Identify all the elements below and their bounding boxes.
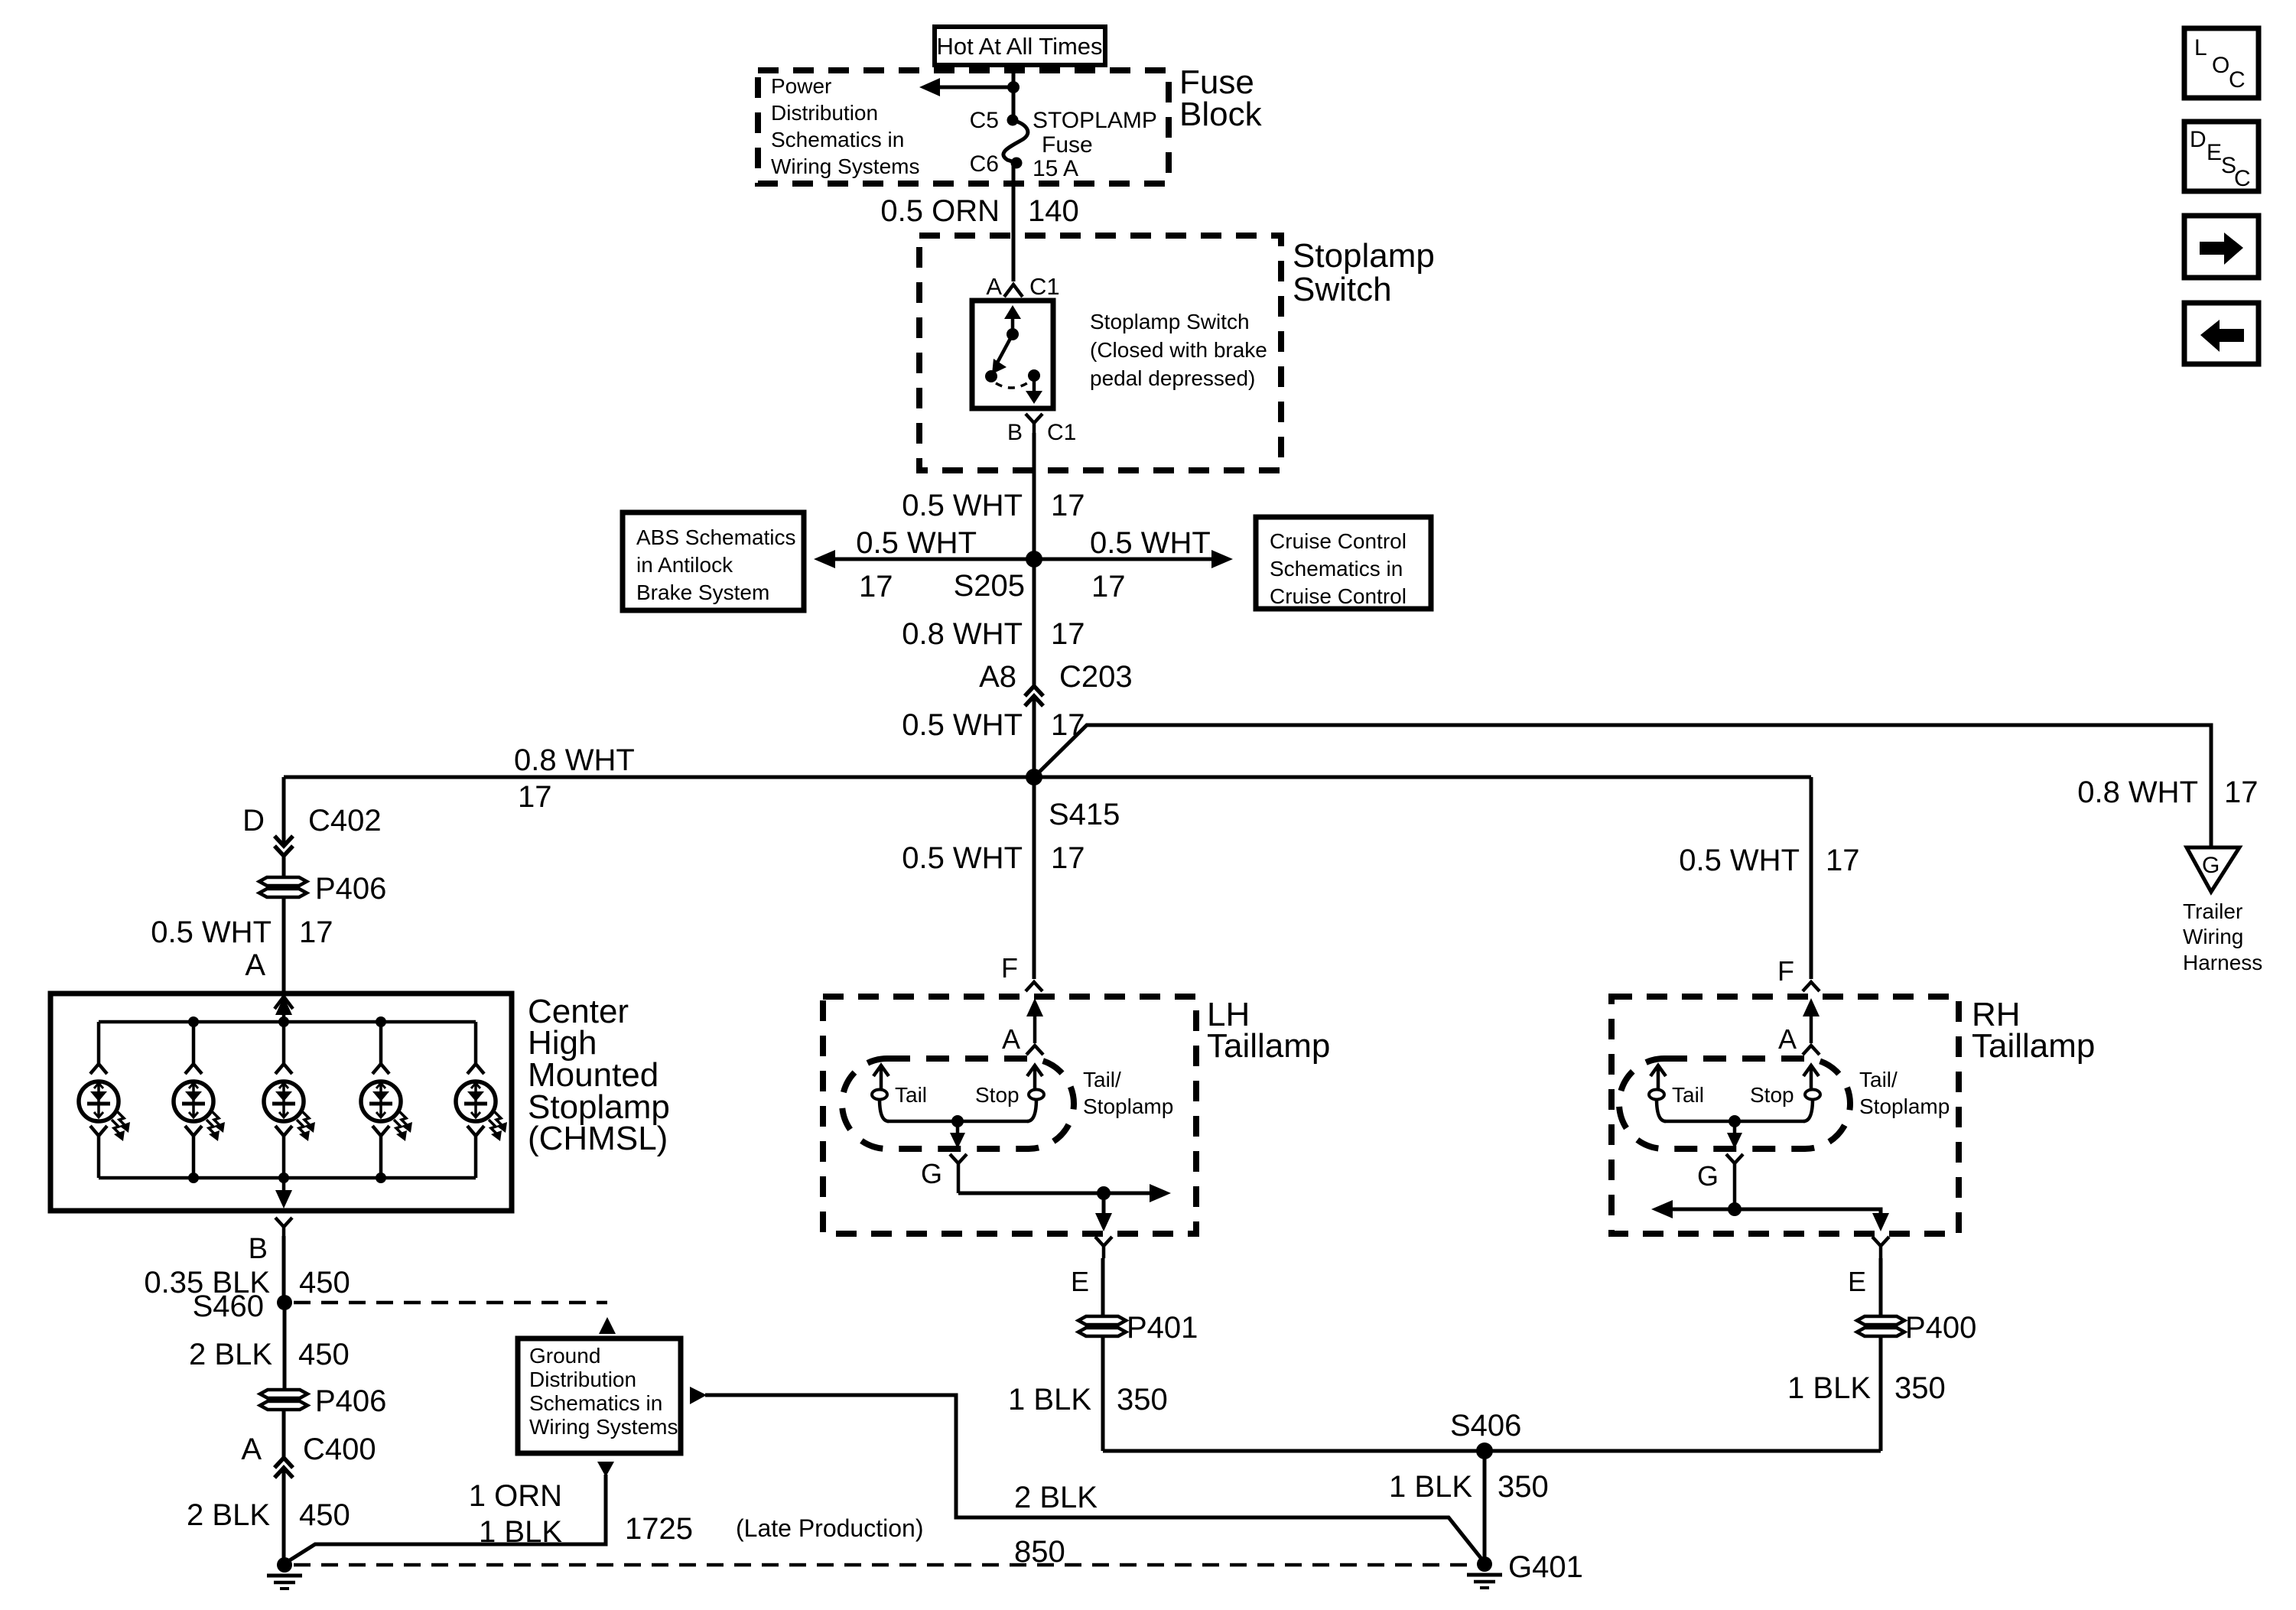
svg-text:0.5 WHT: 0.5 WHT bbox=[902, 708, 1023, 742]
svg-text:in Antilock: in Antilock bbox=[636, 553, 733, 577]
bulb output arrow bbox=[1727, 1121, 1742, 1149]
svg-text:1 BLK: 1 BLK bbox=[1389, 1470, 1472, 1504]
svg-text:17: 17 bbox=[1051, 617, 1085, 651]
label 0.8 WHT / 17 (left corner) bbox=[514, 743, 635, 814]
svg-text:Stoplamp: Stoplamp bbox=[1859, 1094, 1950, 1118]
svg-text:P401: P401 bbox=[1127, 1311, 1198, 1345]
LH Tail/Stoplamp bulb bbox=[842, 1059, 1074, 1149]
svg-text:Taillamp: Taillamp bbox=[1972, 1027, 2095, 1065]
wire E to P401 bbox=[1101, 1258, 1105, 1316]
svg-text:0.8 WHT: 0.8 WHT bbox=[2077, 776, 2198, 809]
bulb filament Stop bbox=[1803, 1065, 1820, 1121]
svg-text:E: E bbox=[1071, 1266, 1089, 1297]
svg-text:2 BLK: 2 BLK bbox=[1014, 1481, 1098, 1514]
wire 2 BLK 450 (S460 to P406) bbox=[189, 1303, 350, 1390]
CHMSL exit arrow bbox=[275, 1178, 292, 1208]
svg-text:0.8 WHT: 0.8 WHT bbox=[514, 743, 635, 777]
svg-text:F: F bbox=[1001, 952, 1018, 984]
svg-text:0.5 WHT: 0.5 WHT bbox=[1679, 844, 1800, 877]
wire E to P400 bbox=[1879, 1258, 1883, 1316]
connector C400 pin A bbox=[241, 1410, 376, 1478]
ground G401 bbox=[1467, 1550, 1583, 1588]
stoplamp switch dashed box bbox=[919, 236, 1281, 470]
RH ground wire with arrow bbox=[1651, 1200, 1889, 1231]
svg-text:G401: G401 bbox=[1508, 1550, 1583, 1584]
CHMSL top bus bbox=[99, 1020, 476, 1024]
svg-text:P400: P400 bbox=[1905, 1311, 1976, 1345]
svg-text:(Closed with brake: (Closed with brake bbox=[1090, 338, 1267, 362]
wire 0.8 WHT 17 (S205 to C203) bbox=[902, 559, 1085, 686]
svg-text:140: 140 bbox=[1028, 194, 1079, 228]
svg-text:1 BLK: 1 BLK bbox=[1008, 1383, 1091, 1416]
svg-text:Wiring Systems: Wiring Systems bbox=[529, 1415, 678, 1439]
RH taillamp dashed box bbox=[1611, 997, 1959, 1234]
icon box arrow left bbox=[2184, 303, 2259, 364]
svg-text:A: A bbox=[1002, 1023, 1020, 1055]
label Tail/Stoplamp (LH) bbox=[1083, 1068, 1173, 1118]
svg-text:ABS Schematics: ABS Schematics bbox=[636, 525, 796, 549]
bulb filament Tail bbox=[1649, 1065, 1666, 1121]
ref box: ABS Schematics in Antilock Brake System bbox=[623, 512, 804, 610]
svg-text:350: 350 bbox=[1894, 1371, 1946, 1405]
icon box arrow right bbox=[2184, 216, 2259, 278]
svg-text:2 BLK: 2 BLK bbox=[187, 1498, 270, 1532]
pin C6 bbox=[970, 151, 1023, 177]
icon box LOC bbox=[2184, 28, 2259, 98]
connector C203 pin A8 bbox=[979, 660, 1133, 706]
node bottom bus dot 1 bbox=[188, 1173, 199, 1183]
CHMSL component box bbox=[50, 994, 512, 1211]
wire from Hot box to fuse bbox=[1012, 65, 1016, 119]
svg-text:B: B bbox=[249, 1233, 268, 1265]
switch: movable arm bbox=[992, 334, 1013, 374]
svg-text:Wiring Systems: Wiring Systems bbox=[771, 154, 919, 178]
svg-text:17: 17 bbox=[1051, 841, 1085, 875]
svg-text:Cruise Control: Cruise Control bbox=[1270, 529, 1407, 553]
svg-text:B: B bbox=[1007, 420, 1023, 445]
svg-text:C400: C400 bbox=[303, 1433, 376, 1466]
svg-text:17: 17 bbox=[1051, 708, 1085, 742]
label 0.8 WHT 17 (right end) bbox=[2077, 776, 2258, 809]
svg-text:Block: Block bbox=[1179, 96, 1263, 133]
node top bus dot 3 bbox=[376, 1016, 386, 1027]
svg-text:(Late Production): (Late Production) bbox=[736, 1514, 923, 1542]
svg-text:17: 17 bbox=[518, 780, 552, 814]
svg-text:Brake System: Brake System bbox=[636, 581, 769, 604]
switch: output arrow down bbox=[1026, 376, 1042, 404]
svg-text:Fuse: Fuse bbox=[1042, 132, 1093, 158]
svg-text:C6: C6 bbox=[970, 151, 999, 177]
RH pin E chevron bbox=[1848, 1237, 1889, 1297]
svg-text:A: A bbox=[1778, 1023, 1797, 1055]
bulb filament Stop bbox=[1027, 1065, 1044, 1121]
svg-text:0.5 ORN: 0.5 ORN bbox=[880, 194, 1000, 228]
svg-text:Power: Power bbox=[771, 74, 831, 98]
svg-text:E: E bbox=[2207, 140, 2222, 165]
svg-text:G: G bbox=[1697, 1160, 1719, 1192]
switch: pivot dot bbox=[1007, 328, 1019, 340]
caption: Trailer Wiring Harness bbox=[2183, 899, 2262, 974]
svg-text:A: A bbox=[245, 948, 265, 982]
svg-text:D: D bbox=[242, 804, 265, 838]
svg-text:A8: A8 bbox=[979, 660, 1016, 694]
RH Tail/Stoplamp bulb bbox=[1619, 1059, 1850, 1149]
svg-text:Switch: Switch bbox=[1293, 271, 1392, 308]
bulb filament Tail bbox=[872, 1065, 889, 1121]
wire 0.5 ORN circuit 140 bbox=[880, 163, 1078, 281]
svg-text:P406: P406 bbox=[315, 1384, 386, 1418]
LED lamp 1 bbox=[79, 1022, 130, 1178]
svg-text:17: 17 bbox=[1091, 570, 1126, 603]
RH pin G chevron bbox=[1697, 1154, 1743, 1209]
RH entry arrow pin A bbox=[1778, 998, 1820, 1055]
LH ground wire with arrow bbox=[958, 1184, 1171, 1231]
node S205 bbox=[954, 551, 1042, 603]
LH pin E chevron bbox=[1071, 1237, 1112, 1297]
grommet P401 bbox=[1078, 1316, 1126, 1336]
svg-text:Ground: Ground bbox=[529, 1344, 600, 1368]
switch: contact dot right bbox=[1028, 369, 1040, 382]
node top bus dot 1 bbox=[188, 1016, 199, 1027]
svg-text:Schematics in: Schematics in bbox=[771, 128, 904, 151]
label: Stoplamp Switch bbox=[1293, 237, 1435, 308]
node: tap junction in fuse block bbox=[1007, 81, 1020, 93]
svg-text:C203: C203 bbox=[1059, 660, 1133, 694]
dashed ground bus to G401 bbox=[294, 1563, 1475, 1567]
svg-text:0.5 WHT: 0.5 WHT bbox=[902, 489, 1023, 522]
svg-text:Hot At All Times: Hot At All Times bbox=[936, 33, 1102, 60]
label 2 BLK / 850 bbox=[1014, 1481, 1098, 1569]
stoplamp switch element box bbox=[972, 301, 1053, 408]
wire arrow to Power Distribution bbox=[919, 78, 1013, 96]
pin C5 bbox=[970, 108, 1019, 133]
svg-text:Tail: Tail bbox=[895, 1083, 927, 1107]
note: Power Distribution Schematics in Wiring Systems bbox=[771, 74, 919, 178]
svg-text:450: 450 bbox=[298, 1338, 350, 1371]
label F (RH) bbox=[1777, 955, 1820, 991]
svg-text:450: 450 bbox=[299, 1498, 350, 1532]
svg-text:C: C bbox=[2229, 67, 2246, 93]
node bottom bus dot 2 bbox=[278, 1173, 289, 1183]
svg-text:G: G bbox=[921, 1158, 942, 1189]
connector C1 pin B (switch output) bbox=[1007, 414, 1076, 445]
trailer harness grommet G bbox=[2187, 847, 2239, 892]
switch: travel dashed arc bbox=[996, 382, 1029, 388]
wire 0.5 WHT 17 (trunk to RH F) bbox=[1679, 777, 1859, 979]
power source box "Hot At All Times" bbox=[935, 27, 1105, 65]
splice S406 bbox=[1450, 1409, 1521, 1459]
svg-text:15 A: 15 A bbox=[1033, 156, 1078, 181]
label F (LH) bbox=[1001, 952, 1042, 991]
wire from ground distribution to G401 bbox=[690, 1387, 1485, 1563]
svg-text:1 BLK: 1 BLK bbox=[479, 1515, 562, 1549]
svg-text:P406: P406 bbox=[315, 872, 386, 906]
svg-text:2 BLK: 2 BLK bbox=[189, 1338, 272, 1371]
svg-text:Schematics in: Schematics in bbox=[1270, 557, 1403, 581]
svg-text:350: 350 bbox=[1498, 1470, 1549, 1504]
svg-text:C1: C1 bbox=[1047, 420, 1076, 445]
svg-text:(CHMSL): (CHMSL) bbox=[528, 1120, 668, 1157]
wire 0.5 WHT 17 (S415 to LH F) bbox=[902, 777, 1085, 979]
svg-text:17: 17 bbox=[2224, 776, 2259, 809]
svg-text:S460: S460 bbox=[193, 1290, 264, 1323]
note: Stoplamp Switch (Closed with brake pedal depressed) bbox=[1090, 310, 1267, 390]
LED lamp 2 bbox=[174, 1022, 225, 1178]
label Tail/Stoplamp (RH) bbox=[1859, 1068, 1950, 1118]
svg-text:17: 17 bbox=[1051, 489, 1085, 522]
svg-text:Stop: Stop bbox=[975, 1083, 1020, 1107]
LH pin G chevron bbox=[921, 1154, 967, 1193]
wire 2 BLK 450 (C400 to ground) bbox=[187, 1468, 350, 1565]
svg-text:17: 17 bbox=[299, 916, 333, 949]
grommet P400 bbox=[1857, 1316, 1904, 1336]
svg-text:S415: S415 bbox=[1049, 798, 1120, 831]
LED lamp 3 bbox=[264, 1022, 315, 1178]
svg-text:Taillamp: Taillamp bbox=[1207, 1027, 1330, 1065]
wire branch to trailer harness (diagonal) bbox=[1034, 725, 2211, 847]
svg-text:D: D bbox=[2190, 127, 2207, 152]
svg-text:17: 17 bbox=[1826, 844, 1860, 877]
svg-text:A: A bbox=[986, 273, 1002, 300]
svg-text:0.5 WHT: 0.5 WHT bbox=[1090, 526, 1211, 560]
svg-text:Stop: Stop bbox=[1750, 1083, 1794, 1107]
svg-text:Distribution: Distribution bbox=[771, 101, 878, 125]
dashed link S460 to ground distribution bbox=[294, 1303, 616, 1334]
wire 1 BLK 350 (S406 to G401) bbox=[1389, 1451, 1549, 1557]
svg-text:S406: S406 bbox=[1450, 1409, 1521, 1442]
svg-text:C402: C402 bbox=[308, 804, 382, 838]
switch: contact dot left bbox=[985, 370, 997, 382]
bulb common wire bbox=[1664, 1120, 1805, 1124]
svg-text:0.5 WHT: 0.5 WHT bbox=[151, 916, 272, 949]
node bottom bus dot 3 bbox=[376, 1173, 386, 1183]
svg-text:Stoplamp: Stoplamp bbox=[1083, 1094, 1173, 1118]
wire 1 BLK 350 (LH) bbox=[1008, 1336, 1168, 1451]
svg-text:Cruise Control: Cruise Control bbox=[1270, 584, 1407, 608]
connector C1 pin A (switch input) bbox=[986, 273, 1059, 300]
LH taillamp dashed box bbox=[823, 997, 1196, 1234]
svg-text:Schematics in: Schematics in bbox=[529, 1391, 662, 1415]
svg-text:Tail/: Tail/ bbox=[1083, 1068, 1121, 1091]
svg-text:C: C bbox=[2234, 166, 2251, 191]
LED lamp 4 bbox=[361, 1022, 412, 1178]
svg-text:17: 17 bbox=[859, 570, 893, 603]
note box: Ground Distribution Schematics in Wiring Systems bbox=[518, 1338, 681, 1453]
svg-text:Harness: Harness bbox=[2183, 951, 2262, 974]
grommet P406 (lower) bbox=[260, 1390, 307, 1410]
connector C402 pin D bbox=[242, 804, 382, 856]
bulb common wire bbox=[887, 1120, 1029, 1124]
svg-text:350: 350 bbox=[1117, 1383, 1168, 1416]
svg-text:450: 450 bbox=[299, 1266, 350, 1299]
wire down to C402 bbox=[282, 777, 286, 846]
svg-text:STOPLAMP: STOPLAMP bbox=[1033, 108, 1157, 133]
switch: fixed contact arrow up bbox=[1004, 305, 1021, 334]
svg-text:0.8 WHT: 0.8 WHT bbox=[902, 617, 1023, 651]
svg-text:G: G bbox=[2202, 853, 2220, 878]
wire 0.5 WHT 17 (P406 to CHMSL pin A) bbox=[151, 897, 333, 995]
node S415 bbox=[1026, 769, 1120, 831]
wire C402 to P406 bbox=[282, 856, 286, 877]
svg-text:S205: S205 bbox=[954, 569, 1025, 603]
svg-text:Tail/: Tail/ bbox=[1859, 1068, 1898, 1091]
ground bus wire (P401 to P400) bbox=[1103, 1449, 1881, 1453]
CHMSL entry arrow bbox=[275, 997, 292, 1022]
wire 1 ORN / 1 BLK 1725 (late production) bbox=[286, 1462, 923, 1563]
svg-text:C5: C5 bbox=[970, 108, 999, 133]
bulb output arrow bbox=[950, 1121, 965, 1149]
svg-text:L: L bbox=[2194, 35, 2207, 60]
svg-text:Distribution: Distribution bbox=[529, 1368, 636, 1391]
LH entry arrow pin A bbox=[1002, 998, 1043, 1055]
wire 0.5 WHT 17 (C203 to S415) bbox=[902, 696, 1085, 777]
svg-text:Tail: Tail bbox=[1672, 1083, 1704, 1107]
svg-text:A: A bbox=[241, 1433, 262, 1466]
connector pin A chevron (CHMSL) bbox=[275, 997, 293, 1009]
wire arrow to ABS schematics 0.5 WHT 17 bbox=[814, 526, 1034, 603]
ground (CHMSL) bbox=[267, 1557, 302, 1589]
svg-text:0.5 WHT: 0.5 WHT bbox=[856, 526, 977, 560]
icon box DESC bbox=[2184, 122, 2259, 191]
svg-text:C1: C1 bbox=[1029, 273, 1060, 300]
label: RH Taillamp bbox=[1972, 996, 2095, 1065]
svg-text:1 BLK: 1 BLK bbox=[1787, 1371, 1871, 1405]
svg-text:1725: 1725 bbox=[625, 1512, 693, 1546]
svg-text:F: F bbox=[1777, 955, 1794, 987]
ref box: Cruise Control Schematics in Cruise Control bbox=[1256, 517, 1431, 609]
wire trunk 0.8 WHT (long horizontal) bbox=[284, 776, 1811, 779]
label: LH Taillamp bbox=[1207, 996, 1330, 1065]
svg-text:O: O bbox=[2212, 53, 2229, 78]
wire arrow to Cruise Control schematics 0.5 WHT 17 bbox=[1034, 526, 1233, 603]
svg-text:Stoplamp: Stoplamp bbox=[1293, 237, 1435, 275]
grommet P406 (upper) bbox=[259, 877, 307, 897]
fuse STOPLAMP 15 A bbox=[1003, 108, 1157, 181]
svg-text:0.5 WHT: 0.5 WHT bbox=[902, 841, 1023, 875]
svg-text:Trailer: Trailer bbox=[2183, 899, 2242, 923]
CHMSL bottom bus bbox=[99, 1176, 476, 1180]
svg-text:Stoplamp Switch: Stoplamp Switch bbox=[1090, 310, 1250, 333]
label: Center High Mounted Stoplamp (CHMSL) bbox=[528, 993, 670, 1157]
svg-text:E: E bbox=[1848, 1266, 1866, 1297]
wire 1 BLK 350 (RH) bbox=[1787, 1336, 1946, 1451]
label: Fuse Block bbox=[1179, 63, 1263, 133]
wire 0.35 BLK 450 bbox=[144, 1236, 350, 1303]
connector pin B chevron (CHMSL out) bbox=[249, 1218, 292, 1265]
svg-text:Wiring: Wiring bbox=[2183, 925, 2243, 948]
node top bus dot 2 (entry) bbox=[278, 1016, 289, 1027]
svg-text:1 ORN: 1 ORN bbox=[469, 1479, 562, 1513]
splice S460 bbox=[193, 1290, 292, 1323]
fuse block dashed box bbox=[758, 70, 1169, 184]
LED lamp 5 bbox=[456, 1022, 507, 1178]
wire 0.5 WHT 17 (switch to S205) bbox=[902, 433, 1085, 559]
svg-text:pedal depressed): pedal depressed) bbox=[1090, 366, 1255, 390]
